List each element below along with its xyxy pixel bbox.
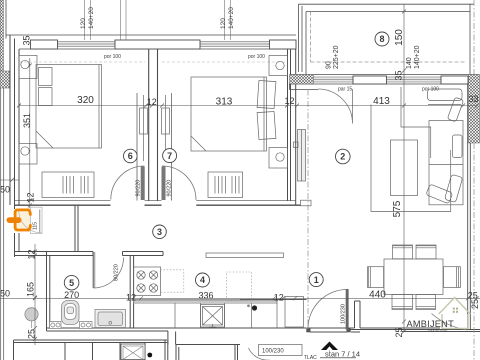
svg-text:12: 12 [126, 293, 136, 303]
svg-text:413: 413 [373, 96, 390, 107]
svg-text:90/220: 90/220 [166, 180, 172, 197]
svg-text:por 100: por 100 [422, 87, 439, 93]
svg-text:313: 313 [216, 97, 233, 108]
svg-text:por 100: por 100 [248, 54, 265, 60]
svg-text:1: 1 [314, 275, 319, 285]
svg-text:336: 336 [198, 291, 213, 301]
svg-text:25: 25 [27, 329, 37, 339]
svg-text:4: 4 [200, 275, 205, 285]
svg-text:270: 270 [64, 290, 79, 300]
svg-text:12: 12 [284, 96, 294, 106]
svg-text:575: 575 [392, 200, 403, 217]
svg-text:TLAC: TLAC [304, 355, 317, 360]
svg-text:12: 12 [274, 293, 284, 303]
svg-text:12: 12 [147, 97, 157, 107]
svg-text:5: 5 [69, 278, 74, 288]
svg-text:351: 351 [22, 113, 32, 128]
svg-text:440: 440 [369, 290, 386, 301]
svg-text:80/220: 80/220 [114, 264, 120, 281]
svg-text:120: 120 [80, 18, 87, 29]
svg-text:3: 3 [157, 227, 162, 237]
svg-text:25: 25 [394, 327, 404, 337]
svg-text:115: 115 [33, 222, 39, 230]
svg-text:2: 2 [340, 152, 345, 162]
svg-text:6: 6 [128, 151, 133, 161]
svg-text:225+20: 225+20 [333, 45, 340, 69]
svg-text:140: 140 [406, 57, 413, 69]
svg-text:120: 120 [220, 18, 227, 29]
svg-text:140+20: 140+20 [414, 45, 421, 69]
svg-text:nekretnine: nekretnine [429, 328, 448, 332]
svg-text:50: 50 [0, 185, 10, 195]
svg-text:90: 90 [326, 61, 333, 69]
svg-text:33: 33 [468, 94, 478, 104]
svg-text:12: 12 [26, 192, 36, 202]
svg-text:320: 320 [77, 95, 94, 106]
svg-text:50: 50 [0, 289, 10, 299]
svg-text:100/230: 100/230 [341, 304, 347, 324]
svg-text:140+20: 140+20 [228, 7, 235, 29]
svg-text:stan 7 / 14: stan 7 / 14 [325, 350, 360, 359]
svg-text:12: 12 [27, 249, 37, 259]
svg-text:7: 7 [167, 151, 172, 161]
svg-text:35: 35 [394, 70, 404, 80]
svg-text:90/220: 90/220 [135, 180, 141, 197]
svg-text:par 15: par 15 [338, 87, 352, 93]
svg-text:140+20: 140+20 [88, 7, 95, 29]
svg-text:35: 35 [22, 35, 32, 45]
svg-text:por 100: por 100 [104, 54, 121, 60]
svg-text:25: 25 [470, 299, 480, 309]
svg-text:8: 8 [379, 34, 384, 44]
svg-text:165: 165 [26, 282, 36, 297]
svg-text:150: 150 [394, 29, 405, 46]
svg-text:100/230: 100/230 [262, 349, 284, 355]
